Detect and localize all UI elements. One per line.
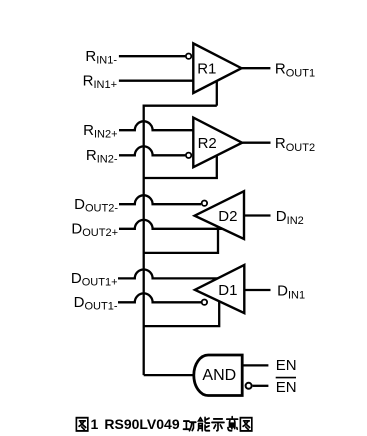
wire DIN1 input <box>244 289 270 291</box>
receiver R1 triangle <box>193 43 241 93</box>
svg-text:1: 1 <box>91 416 99 432</box>
inversion bubble D2 output <box>202 201 207 206</box>
wire DOUT1- output with hop over enable bus <box>118 293 201 302</box>
wire DOUT2+ output with hop over enable bus <box>119 220 222 229</box>
wire RIN1+ input <box>119 80 194 82</box>
inversion bubble R2 input <box>186 153 191 158</box>
svg-text:EN: EN <box>276 379 297 396</box>
CJK glyph tu (figure) second <box>240 418 251 431</box>
wire D2 enable drop <box>144 228 218 253</box>
caption figure title <box>76 416 251 432</box>
wire RIN2+ input with hop over enable bus <box>119 121 193 130</box>
wire RIN1- input <box>119 55 185 57</box>
wire ROUT1 output <box>241 67 270 69</box>
inversion bubble D1 output <box>202 300 207 305</box>
svg-text:R2: R2 <box>198 135 217 152</box>
wire R1 enable drop <box>216 81 218 106</box>
wire DOUT2- output with hop over enable bus <box>119 195 201 204</box>
svg-text:EN: EN <box>276 357 297 374</box>
enable bus vertical <box>144 106 217 375</box>
wire RIN2- input with hop over enable bus <box>119 146 185 155</box>
wire DIN2 input <box>244 214 271 216</box>
CJK glyph neng (ability) <box>198 417 209 430</box>
svg-text:R1: R1 <box>197 60 216 77</box>
driver D2 triangle <box>195 191 244 239</box>
wire ROUT2 output <box>242 142 270 144</box>
receiver R2 triangle <box>193 118 242 168</box>
AND gate U1 <box>194 355 242 396</box>
svg-text:RS90LV049: RS90LV049 <box>104 416 179 432</box>
CJK glyph yi (meaning) <box>227 417 238 431</box>
wire ENbar input <box>253 385 269 387</box>
wire AND output to enable bus <box>144 374 194 376</box>
wire DOUT1+ output with hop over enable bus <box>118 270 218 279</box>
wire D1 enable drop <box>144 302 220 326</box>
inversion bubble R1 input <box>186 54 191 59</box>
driver D1 triangle <box>195 265 244 313</box>
CJK glyph tu (figure) <box>76 418 87 431</box>
CJK glyph shi (show) <box>212 419 224 431</box>
CJK glyph gong (function) <box>183 421 195 431</box>
svg-text:D2: D2 <box>218 208 237 225</box>
svg-text:D1: D1 <box>218 282 237 299</box>
svg-text:AND: AND <box>202 367 236 384</box>
inversion bubble ENbar input <box>246 383 252 389</box>
wire R2 enable drop <box>144 155 217 178</box>
wire EN input <box>242 364 268 366</box>
